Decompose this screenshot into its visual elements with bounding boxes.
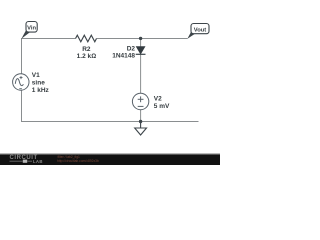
source V1 (13, 74, 29, 90)
wire resistor-to-Vout (97, 38, 188, 40)
resistor R2 (76, 35, 97, 42)
source V2 labels (154, 96, 170, 110)
svg-text:LAB: LAB (33, 159, 43, 164)
diode D2 labels (112, 46, 135, 60)
ground (135, 122, 147, 136)
svg-text:5 mV: 5 mV (154, 103, 170, 110)
source V2 (132, 93, 148, 109)
footer link text (57, 155, 99, 163)
svg-text:Vin: Vin (27, 26, 36, 32)
wire top left-to-resistor (21, 38, 76, 40)
wire node-to-diode (140, 39, 142, 48)
wire diode-to-V2 (140, 54, 142, 93)
svg-text:sine: sine (32, 80, 45, 87)
svg-text:1 kHz: 1 kHz (32, 87, 50, 94)
wire V2-to-bottom (140, 110, 142, 122)
svg-text:1N4148: 1N4148 (112, 53, 135, 60)
svg-text:V1: V1 (32, 72, 40, 79)
svg-text:1.2 kΩ: 1.2 kΩ (77, 53, 96, 60)
wire V1-to-bottom (21, 90, 23, 121)
svg-text:V2: V2 (154, 96, 162, 103)
node A (diode/top-wire junction) (139, 37, 142, 40)
flag Vin (21, 22, 37, 39)
svg-text:Vout: Vout (194, 27, 207, 33)
wire left vertical Vin-to-V1 (21, 38, 23, 74)
wire bottom rail (21, 121, 199, 123)
flag Vout (187, 24, 209, 39)
svg-text:http://circuitlab.com/c892x3b: http://circuitlab.com/c892x3b (57, 159, 99, 163)
node B (ground junction) (139, 120, 142, 123)
footer logo CIRCUIT LAB (10, 155, 43, 164)
resistor R2 labels (77, 46, 96, 60)
diode D2 (136, 47, 146, 55)
source V1 labels (32, 72, 50, 94)
